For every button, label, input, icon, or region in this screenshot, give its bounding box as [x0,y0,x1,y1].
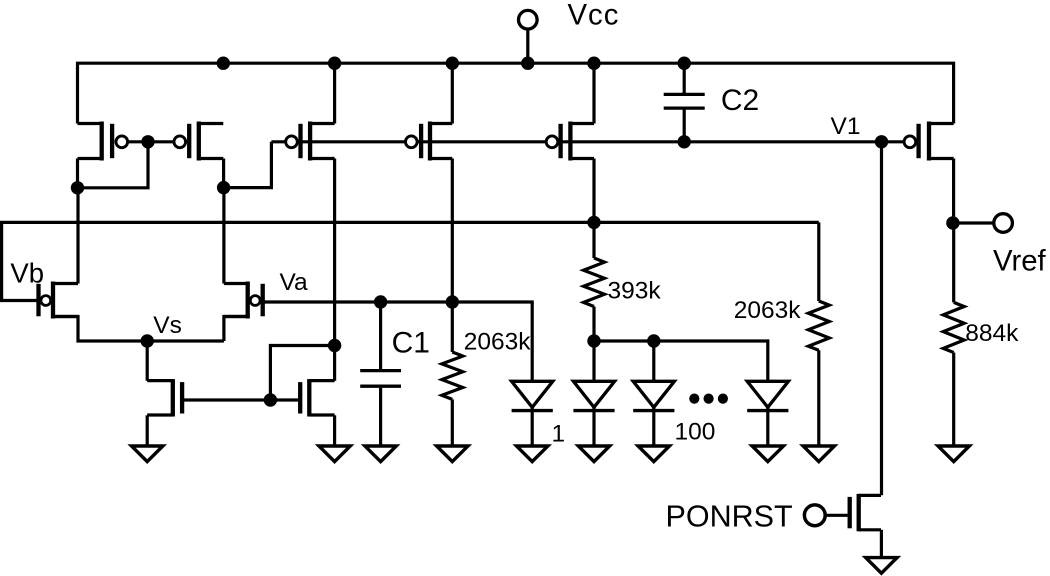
junction dot D3 top [647,334,660,347]
transistor M4 (PMOS) [405,122,452,161]
wire R4 bottom lead [952,353,955,447]
capacitor C2 [664,94,705,108]
svg-text:PONRST: PONRST [666,499,793,533]
svg-text:C1: C1 [392,327,430,360]
resistor R1 2063k [442,352,463,399]
ground R1 [437,446,468,462]
capacitor C1 [360,371,401,387]
wire Va net [265,302,532,381]
junction dots Vcc rail [217,57,230,70]
ground M8 source [319,446,350,462]
wire D2 top lead [592,341,595,381]
wire M8 diode connection [270,346,334,401]
wire M9 source to ground [880,530,883,558]
svg-text:2063k: 2063k [464,329,532,356]
wire C1 top lead [379,302,382,369]
wire M7-M8 gate link [184,398,298,401]
junction dot node A [71,181,84,194]
junction dot Vref [946,216,959,229]
wire Va gate lead [263,300,266,303]
svg-text:Vref: Vref [993,244,1047,277]
wire T1 source down to node [76,159,79,188]
ground D4 [752,446,783,462]
svg-text:Vcc: Vcc [568,0,620,32]
wire C2 top lead [683,63,686,93]
wire C1 bottom lead [379,388,382,446]
svg-text:Va: Va [280,269,309,296]
ground D2 [578,446,609,462]
junction dot M8 drain [328,339,341,352]
resistor R2 393k [584,258,605,307]
transistor M7 (NMOS mirror out) [147,379,182,416]
junction dot M7 M8 gates [264,393,277,406]
wire T3 drain riser [333,63,336,123]
wire T5 source down to Vb rail [592,159,595,223]
wire Vcc terminal stem [526,30,529,64]
wire Vs link [147,339,224,342]
terminal PONRST [804,505,825,526]
ground M7 source [132,446,163,462]
wire C2 bottom lead [683,110,686,142]
transistor M5 (PMOS) [546,122,594,161]
terminal Vcc [519,10,538,29]
junction dot C1 top [374,295,387,308]
transistor M9 (NMOS PONRST switch) [850,494,881,531]
ground D3 [638,446,669,462]
wire T4 drain riser [451,63,454,123]
wire R2 top lead [592,222,595,258]
svg-text:C2: C2 [721,84,759,117]
svg-text:884k: 884k [965,320,1019,347]
wire T2 source down to node B [222,159,225,188]
svg-text:Vs: Vs [153,312,182,339]
wire Vs down to M7 drain [146,341,149,381]
wire R4 top lead [952,223,955,302]
terminal Vref [994,214,1013,233]
wire Va transistor source step [224,317,248,342]
ground D1 [517,446,548,462]
transistor M11 (PMOS Va input) [224,282,266,319]
wire diode chain rail [594,341,768,381]
junction dot node B [217,181,230,194]
svg-text:1: 1 [552,420,566,447]
wire R2 bottom lead [592,307,595,342]
resistor R4 884k [943,302,964,352]
diode D3 [633,381,674,446]
transistor M2 (PMOS mirror) [174,122,223,161]
ground R4 [938,446,969,462]
junction dot R2 bottom [587,334,600,347]
junction dot R1 top [446,295,459,308]
wire T1 diode connection [78,142,149,188]
wire R1 top lead [451,302,454,352]
wire R1 bottom lead [451,399,454,446]
wire Vref terminal lead [953,221,994,224]
svg-text:2063k: 2063k [734,297,802,324]
wire node B to gate rail riser [224,142,272,188]
wire M8 source to ground [333,415,336,446]
diode D2 [573,381,614,446]
wire T5 drain riser [592,63,595,123]
resistor R3 2063k [808,301,829,350]
wire R3 bottom lead [817,350,820,446]
transistor M3 (PMOS) [286,122,335,161]
wire node A down to Vb transistor [76,188,79,284]
wire Vcc top rail [78,63,954,123]
node Vs [141,334,154,347]
ellipsis more diodes [689,394,728,404]
wire D3 top lead [652,341,655,381]
svg-text:Vb: Vb [10,258,44,289]
wire Vb rail [2,222,819,300]
diode D4 [747,381,788,446]
ground M9 source [866,558,897,574]
wire T6 source down to Vref [952,159,955,224]
wire Vb transistor source step [53,317,147,342]
svg-text:100: 100 [675,419,716,446]
wire M8 drain riser [333,346,336,381]
transistor M1 (PMOS diode-connected) [78,122,128,161]
wire node B down to Va transistor [222,188,225,284]
ground R3 [803,446,834,462]
transistor M10 (PMOS Vb input) [39,282,79,319]
transistor M6 (PMOS output) [904,122,954,161]
wire V1 net down to M9 drain [880,142,883,496]
ground C1 [365,446,396,462]
wire PONRST gate lead [824,514,848,517]
svg-text:V1: V1 [831,113,861,140]
wire T3 source down to mirror node [333,159,336,346]
junction dot T1 T2 gates [141,135,154,148]
junction dot Vb rail R2 [587,216,600,229]
transistor M8 (NMOS mirror in) [300,379,334,416]
wire T4 source down to Va wire [451,159,454,303]
wire gate rail V1 [271,140,903,143]
svg-text:393k: 393k [608,278,662,305]
wire M7 source to ground [146,415,149,446]
diode D1 [512,381,553,446]
node V1 [875,135,888,148]
wire T1-T2 gate link [122,140,180,143]
wire Vb rail down to resistor [817,222,820,301]
junction dot C2 bottom [678,135,691,148]
